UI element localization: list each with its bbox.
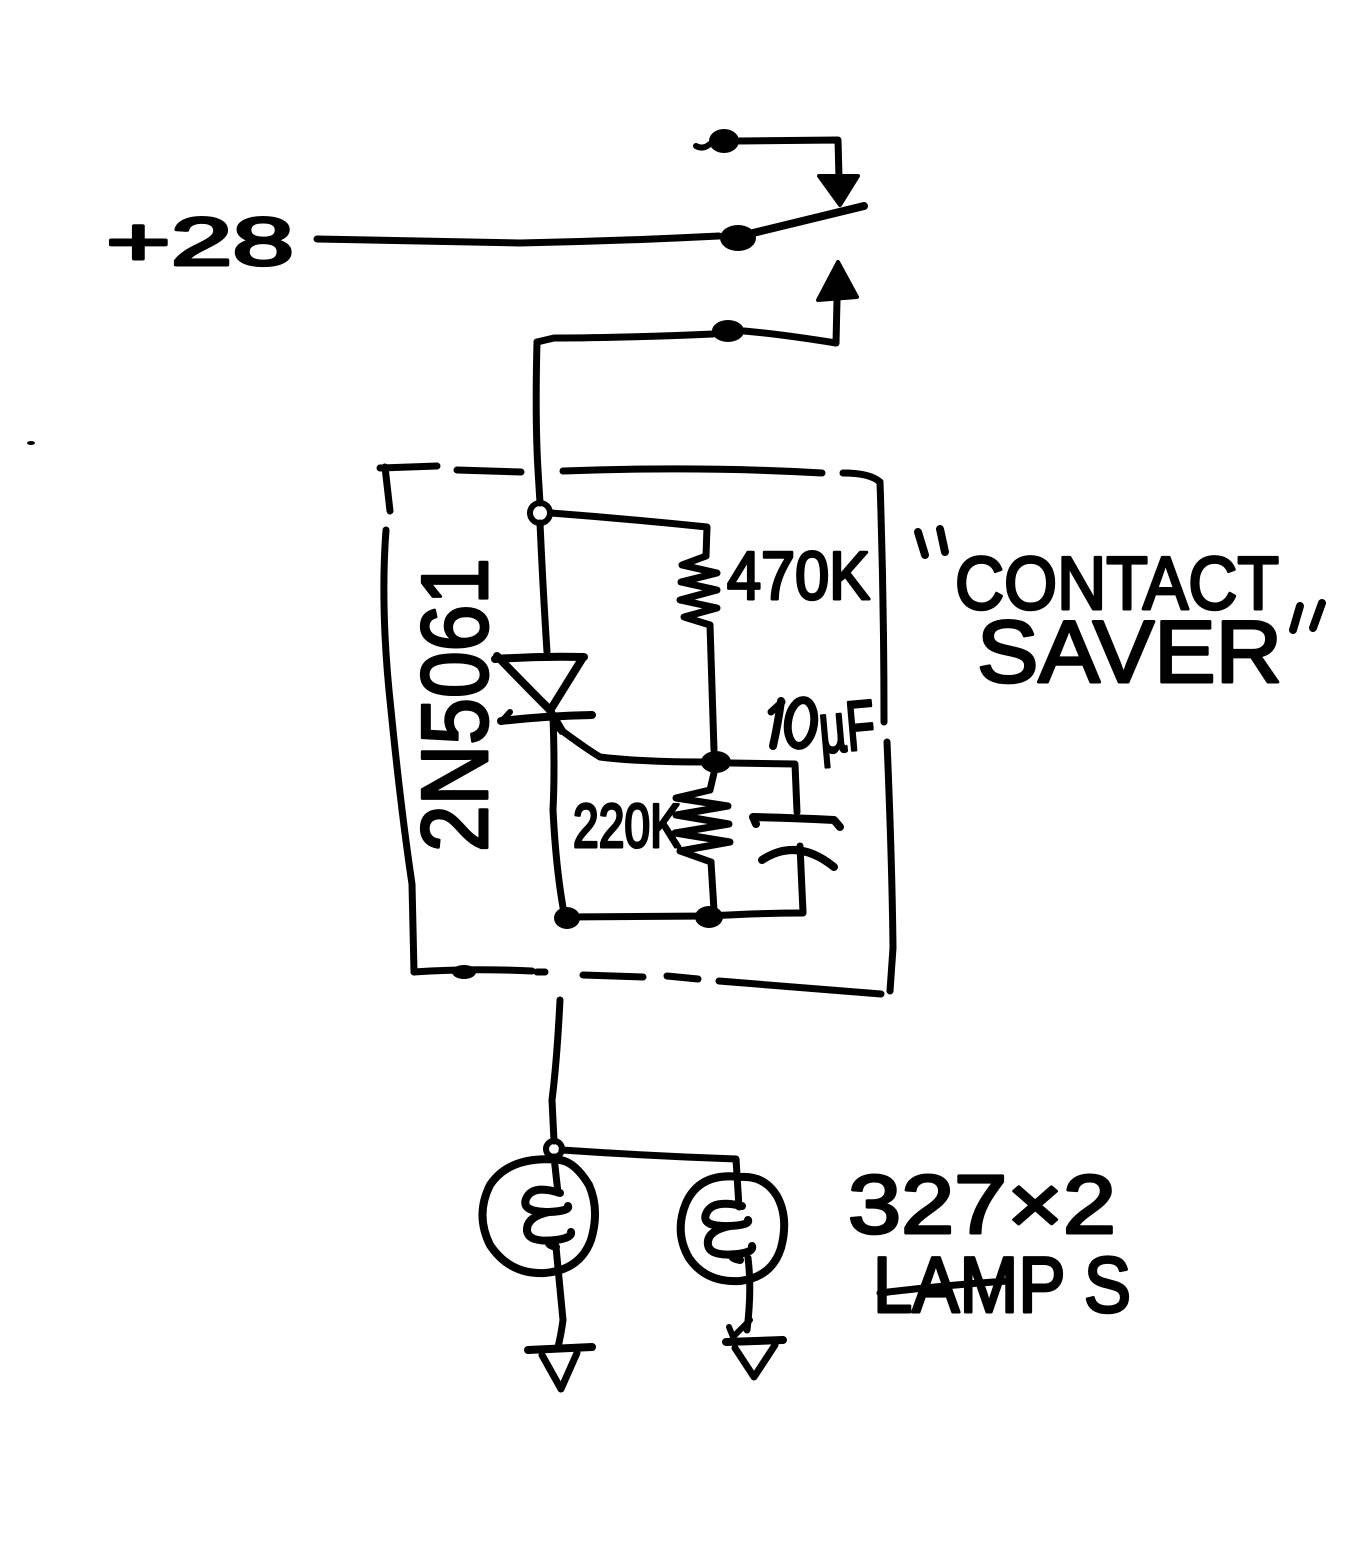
svg-text:+28: +28 <box>106 204 294 280</box>
ground 2 bar <box>726 1340 783 1342</box>
dashed module box: left edge <box>385 467 390 511</box>
svg-text:µF: µF <box>816 685 879 768</box>
dashed module box: top edge <box>380 466 437 468</box>
lamp 1 bottom lead <box>556 1247 563 1347</box>
switch S1 arm <box>753 206 864 233</box>
ground 1 bar <box>528 1347 592 1350</box>
ground 1 V <box>542 1353 577 1389</box>
junction dot bottom left <box>554 907 580 929</box>
lamp 1 circle <box>483 1159 596 1273</box>
junction gate node dot <box>701 751 731 773</box>
wire junction to lamp 2 <box>562 1150 739 1207</box>
switch S1 lower throw arrow <box>818 262 857 300</box>
svg-text:SAVER: SAVER <box>977 602 1282 701</box>
capacitor 10uF bottom lead <box>800 846 803 912</box>
wire 470K to gate node <box>710 625 714 750</box>
wire 220K to bottom <box>711 862 714 910</box>
dashed module box: right edge <box>880 482 884 722</box>
SCR cathode bar <box>501 715 592 721</box>
node anode junction open circle <box>530 503 550 523</box>
svg-text:470K: 470K <box>727 538 870 614</box>
label CONTACT SAVER quotes close <box>1293 606 1300 630</box>
junction dot on lower throw wire <box>712 320 744 342</box>
lamp 2 circle <box>681 1176 785 1281</box>
wire junction into lamp 1 <box>554 1157 558 1193</box>
SCR gate lead <box>557 727 702 762</box>
junction node lamps open circle <box>546 1141 562 1157</box>
ground 2 V <box>735 1345 775 1377</box>
label 10 uF <box>771 702 782 712</box>
wire upper throw terminal to arrow <box>739 140 839 178</box>
svg-text:2N5061: 2N5061 <box>402 558 507 852</box>
lamp 1 filament <box>525 1190 571 1247</box>
svg-text:220K: 220K <box>573 792 681 861</box>
lamp 2 bottom lead <box>747 1258 750 1330</box>
wire box to lamp junction <box>552 1000 560 1141</box>
resistor 470K zigzag <box>680 556 717 625</box>
switch S1 upper throw terminal dot <box>709 129 739 153</box>
junction dot bottom middle <box>695 906 723 928</box>
wire down to anode node <box>536 342 540 503</box>
wire lower throw to corner <box>744 331 836 343</box>
capacitor 10uF top plate <box>753 817 840 827</box>
wire lower throw arrow stem <box>836 300 837 343</box>
SCR triangle top bar <box>495 657 584 659</box>
svg-text:327×2: 327×2 <box>848 1158 1116 1251</box>
label CONTACT SAVER quotes open <box>918 532 925 555</box>
wire gate node down to 220K <box>710 773 714 790</box>
SCR anode lead <box>540 523 547 652</box>
resistor 220K zigzag <box>675 790 730 862</box>
switch S1 upper throw arrow <box>819 176 858 205</box>
bottom wire cathode to capacitor <box>564 913 803 917</box>
SCR triangle <box>497 656 562 731</box>
wire +28 to switch pole <box>317 236 719 243</box>
lamp 2 filament <box>705 1204 752 1260</box>
capacitor 10uF bottom plate <box>762 850 834 867</box>
SCR cathode lead <box>553 717 564 913</box>
wire anode node to 470K resistor <box>551 513 707 556</box>
LAMPS L bottom sweep stroke <box>880 1281 1008 1293</box>
capacitor 10uF top lead <box>731 763 797 812</box>
stray speck <box>27 441 35 445</box>
dashed module box: bottom edge <box>414 970 532 972</box>
switch S1 pole contact dot <box>720 225 756 251</box>
